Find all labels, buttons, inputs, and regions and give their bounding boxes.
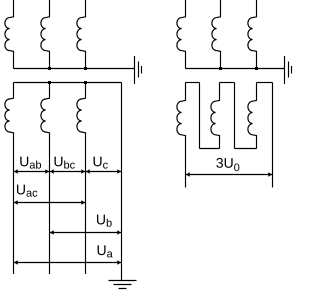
wire top link L10-L11 xyxy=(186,82,200,84)
ground (secondary star neutral) xyxy=(109,281,137,289)
winding L6 (phase c, primary right) xyxy=(248,0,257,69)
value label Uc arrow xyxy=(86,171,122,173)
value label Ua arrow xyxy=(14,262,122,264)
value label Uab arrow xyxy=(14,171,50,173)
ground (right primary neutral) xyxy=(285,56,292,84)
winding L8 (phase b, secondary star) xyxy=(41,83,50,275)
wire bottom link to L12 xyxy=(235,148,257,150)
winding L10 (open delta, phase a) xyxy=(177,83,186,188)
value label Uab xyxy=(20,157,41,169)
node junction L5-bus xyxy=(219,67,222,70)
node junction secondary phase c xyxy=(84,81,87,84)
wire return leg between L11 and L12 xyxy=(234,83,236,149)
winding L4 (phase a, primary right) xyxy=(177,0,186,69)
value label Ubc arrow xyxy=(50,171,86,173)
wire top link L11-L12 xyxy=(220,82,235,84)
wire secondary star bus xyxy=(14,82,122,84)
winding L2 (phase b, primary left) xyxy=(41,0,50,69)
value label Ubc xyxy=(54,157,74,169)
winding L9 (phase c, secondary star) xyxy=(77,83,86,275)
wire bottom link to L11 xyxy=(200,148,220,150)
value label 3U0 arrow xyxy=(186,174,273,176)
value label Uc xyxy=(94,157,108,169)
value label Ua xyxy=(98,245,113,257)
winding L1 (phase a, primary left) xyxy=(5,0,14,69)
value label Ub arrow xyxy=(50,232,122,234)
value label Uac xyxy=(17,185,37,197)
winding L5 (phase b, primary right) xyxy=(212,0,221,69)
node junction L3-bus xyxy=(84,67,87,70)
node junction secondary phase b xyxy=(48,81,51,84)
value label 3U0 xyxy=(216,158,239,171)
wire neutral bus of left primary group xyxy=(14,68,135,70)
winding L11 (open delta, phase b) xyxy=(211,83,220,149)
winding L7 (phase a, secondary star) xyxy=(5,83,14,275)
node junction L6-bus xyxy=(255,67,258,70)
ground (left primary neutral) xyxy=(135,56,142,84)
wire neutral conductor of secondary star xyxy=(121,83,123,281)
node junction L2-bus xyxy=(48,67,51,70)
wire return leg between L10 and L11 xyxy=(199,83,201,149)
wire output terminal right xyxy=(272,83,274,188)
wire neutral bus of right primary group xyxy=(186,68,285,70)
value label Uac arrow xyxy=(14,202,86,204)
wire top link L12 to output terminal xyxy=(257,82,273,84)
winding L3 (phase c, primary left) xyxy=(77,0,86,69)
value label Ub xyxy=(97,215,112,227)
winding L12 (open delta, phase c) xyxy=(248,83,257,149)
